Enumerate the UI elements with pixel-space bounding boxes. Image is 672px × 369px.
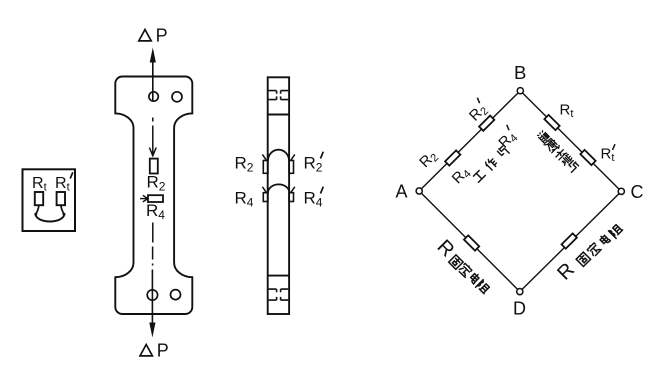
label 温度补偿片 (temperature compensation gauges) <box>537 130 579 173</box>
node B <box>517 88 523 94</box>
strip section line top <box>268 114 289 116</box>
gauge R4' side element <box>289 193 293 202</box>
label R4' (bridge) <box>494 125 522 153</box>
junction dot left <box>34 213 37 216</box>
svg-text:P: P <box>157 341 169 361</box>
label 固定电阻 (D-C arm) <box>576 223 624 266</box>
node C <box>618 188 624 194</box>
strain gauge R2 (longitudinal) <box>150 159 158 174</box>
node D <box>517 289 523 295</box>
node A <box>416 188 422 194</box>
lead tick left (R2) <box>262 154 266 160</box>
hole top-left <box>149 92 158 101</box>
label R fixed resistor (A-D arm) <box>433 236 459 262</box>
wire B-C <box>520 91 621 192</box>
wire arc over strip (R2/R2') <box>268 150 289 161</box>
svg-text:C: C <box>631 182 644 202</box>
pointer arrow to gauge R4 <box>140 195 148 202</box>
centerline segment with arrow to gauge R2 <box>149 126 156 156</box>
label Rt' (box) <box>55 172 73 193</box>
label R4' (strip) <box>304 187 324 210</box>
label 固定电阻 (A-D arm) <box>449 255 491 295</box>
hidden hole line top 2 <box>269 96 289 99</box>
label Rt' (bridge) <box>601 144 616 164</box>
label ΔP top <box>139 26 168 46</box>
svg-text:A: A <box>396 182 408 202</box>
hidden hole line bottom 2 <box>269 297 289 300</box>
gauge R4 side element <box>263 193 268 202</box>
centerline dash upper <box>152 118 154 122</box>
lead tick left (R4) <box>262 187 266 193</box>
wire A-D <box>419 191 520 292</box>
centerline dash lower 1 <box>152 223 154 243</box>
resistor Rt (bridge arm B-C upper) <box>544 115 559 130</box>
gauge R2' side element <box>289 161 293 174</box>
specimen outline <box>115 77 192 315</box>
svg-text:D: D <box>513 299 526 319</box>
wire D-C <box>520 191 622 291</box>
hole top-right <box>172 92 182 102</box>
wire A-B <box>419 91 520 191</box>
gauge element Rt' <box>57 192 65 205</box>
hidden hole line top 1 <box>269 91 289 94</box>
fixed resistor R (bridge arm A-D) <box>464 235 479 250</box>
svg-text:B: B <box>514 62 526 83</box>
fixed resistor R (bridge arm D-C) <box>562 233 577 248</box>
label Rt (box) <box>32 175 47 194</box>
resistor R2'/R4' (bridge arm A-B upper) <box>479 116 494 131</box>
label R2' (bridge) <box>464 98 492 126</box>
junction dot right <box>63 213 66 216</box>
force arrow down <box>149 270 155 338</box>
svg-text:P: P <box>156 26 168 46</box>
strip section line bottom <box>268 275 289 277</box>
wire U-link between gauges <box>36 214 65 221</box>
gauge element Rt <box>35 192 43 205</box>
wire lead from Rt' <box>61 205 64 214</box>
resistor Rt' (bridge arm B-C lower) <box>580 150 595 165</box>
label R2 (bridge) <box>416 147 441 172</box>
resistor R2/R4 (bridge arm A-B lower) <box>445 150 460 165</box>
compensation gauge box outline <box>23 169 76 231</box>
hole bottom-right <box>171 290 181 300</box>
label R2' (strip) <box>304 152 324 175</box>
label R fixed resistor (D-C arm) <box>553 259 579 285</box>
wire lead from Rt <box>36 205 39 214</box>
hole bottom-left <box>147 290 157 300</box>
label ΔP bottom <box>140 341 169 361</box>
centerline dash lower 2 <box>152 247 154 260</box>
hidden hole line bottom 1 <box>269 289 289 292</box>
strain gauge R4 (transverse) <box>148 195 163 202</box>
label R4 (bridge) <box>449 163 474 188</box>
lead tick right (R2') <box>291 154 295 160</box>
gauge R2 side element <box>263 161 268 174</box>
force arrow up <box>150 48 156 102</box>
label 工作片 (working gauges) <box>473 146 510 183</box>
centerline dot <box>152 264 154 266</box>
lead tick right (R4') <box>291 187 295 193</box>
strip outline <box>268 77 289 314</box>
wire arc over strip (R4/R4') <box>268 184 289 192</box>
